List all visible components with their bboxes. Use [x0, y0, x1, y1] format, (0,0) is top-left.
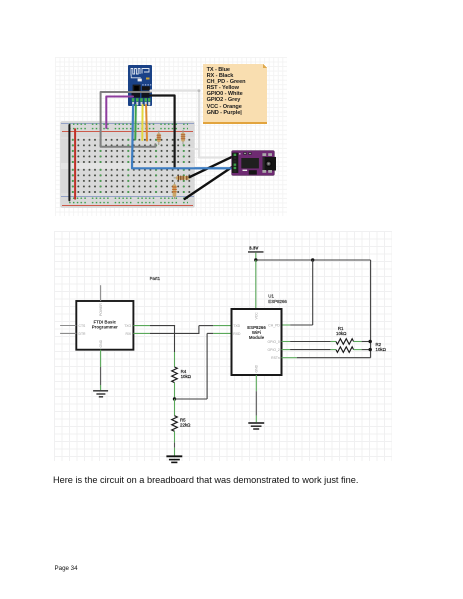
svg-text:CH_PD: CH_PD [268, 324, 280, 328]
wires overlay [55, 57, 287, 216]
resistor on breadboard (bottom horizontal) [174, 176, 191, 180]
wire R2 to bus [354, 349, 371, 351]
wire R1 to bus [354, 341, 371, 343]
chip 2 [142, 84, 151, 85]
legend note (sticky) [203, 64, 267, 125]
svg-text:RSTn: RSTn [271, 356, 280, 360]
resistor R4 [172, 367, 192, 383]
wire junction down to R5 [174, 399, 176, 416]
wire U1 GND down to ground [255, 375, 257, 422]
wire RXI to U1 TXD (crossover) [133, 326, 231, 334]
svg-text:3.3V: 3.3V [249, 246, 259, 251]
svg-text:10kΩ: 10kΩ [181, 374, 192, 379]
wire black GND of ESP [151, 96, 175, 169]
white silkscreen bits [242, 170, 247, 171]
svg-text:Programmer: Programmer [92, 325, 118, 330]
svg-text:DTR: DTR [79, 332, 87, 336]
wire white GPIO0 [151, 91, 236, 158]
resistor on breadboard (bottom vertical) [173, 183, 177, 199]
breadboard top bank dots [70, 137, 192, 165]
wire orange VCC [145, 105, 148, 141]
breadboard bottom rail red line [62, 204, 193, 207]
wire black serial B (to FTDI) [190, 155, 236, 177]
wire pin POWER stub (top) [100, 285, 102, 301]
ground (R5) [166, 456, 182, 462]
left pin header [232, 153, 238, 173]
svg-text:U1: U1 [268, 294, 274, 299]
lower pads region [132, 93, 141, 98]
svg-text:ESP8266: ESP8266 [268, 299, 287, 304]
resistor on breadboard (top-left) [157, 131, 161, 145]
node junction at VCC [254, 258, 257, 261]
IC U1 ESP8266 [232, 294, 288, 375]
svg-text:GND: GND [99, 339, 103, 347]
svg-text:22kΩ: 22kΩ [180, 423, 191, 428]
svg-text:10kΩ: 10kΩ [336, 331, 347, 336]
wire RSTn to bus [282, 357, 371, 359]
ground (U1) [248, 423, 264, 429]
svg-text:Module: Module [249, 335, 265, 340]
wire pin CTS stub [60, 325, 76, 327]
wire GPIO_0 to R1 [282, 341, 337, 343]
bottom chip [249, 170, 257, 174]
wire GPIO_2 to R2 [282, 349, 337, 351]
breadboard photo (Fritzing) [55, 57, 287, 216]
breadboard bottom bank dots [70, 167, 192, 195]
wire GND of FTDI down to ground [100, 350, 102, 391]
resistor on breadboard (top-right) [181, 131, 185, 145]
breadboard top rail red line [62, 130, 193, 133]
wire blue TX [132, 105, 237, 168]
svg-text:POWER: POWER [99, 303, 103, 316]
svg-text:GPIO_0: GPIO_0 [268, 340, 280, 344]
svg-text:GPIO_2: GPIO_2 [268, 348, 280, 352]
wire red rail jumper (left) [74, 129, 76, 199]
breadboard body [61, 122, 194, 207]
top small parts [243, 152, 246, 155]
breadboard bottom rail dots [68, 196, 188, 205]
resistor R2 [336, 342, 387, 353]
wire pin DTR stub [60, 332, 76, 334]
svg-text:VCC: VCC [255, 312, 259, 320]
wire right pull-up bus vertical [370, 260, 372, 358]
FTDI programmer (purple PCB) [232, 151, 274, 175]
svg-text:TXD: TXD [233, 324, 240, 328]
wire junction to RXD riser [175, 398, 208, 400]
svg-text:TXO: TXO [124, 324, 131, 328]
node junction R1/bus [369, 340, 372, 343]
breadboard center channel [61, 163, 194, 169]
wire CH_PD horizontal into U1 [290, 324, 313, 326]
ground (FTDI) [93, 391, 108, 397]
node junction at CH_PD riser [311, 258, 314, 261]
wire yellow RST [141, 105, 143, 140]
node 3.3V power symbol [248, 246, 264, 260]
wire CH_PD riser vertical [312, 260, 314, 325]
wire R5 bottom to ground [174, 431, 176, 456]
wire black rail jumper (left) [68, 125, 70, 200]
svg-text:GND: GND [255, 364, 259, 372]
main chip [241, 158, 259, 168]
wire grey GPIO2 [101, 92, 156, 147]
breadboard top blue line [61, 123, 194, 124]
resistor R1 [336, 326, 354, 344]
chip 1 [133, 85, 141, 92]
smd resistor white [138, 79, 142, 82]
breadboard bottom blue line [61, 195, 194, 198]
wire purple GND [106, 97, 133, 129]
resistor R5 [172, 416, 191, 432]
antenna trace [131, 69, 149, 76]
svg-text:10kΩ: 10kΩ [376, 347, 387, 352]
svg-text:RXI: RXI [126, 332, 132, 336]
wire VCC vertical (3.3V to U1 VCC pin) [255, 260, 257, 309]
IC FTDI Basic Programmer [76, 301, 133, 350]
usb connector [262, 157, 275, 171]
wire R4 bottom to junction [174, 383, 176, 399]
silver pads [262, 153, 266, 156]
svg-text:CTS: CTS [79, 324, 87, 328]
wire 3.3V rail horizontal [256, 259, 371, 261]
wire blue into FTDI [195, 167, 237, 169]
node junction R2/bus [369, 348, 372, 351]
wire TXO: green stub then dark to R4 top corner [133, 326, 175, 367]
node junction R4/R5/RXD [173, 397, 176, 400]
breadboard top rail dots [68, 122, 188, 131]
ESP8266 module (blue PCB) [128, 65, 152, 106]
svg-text:Part1: Part1 [150, 276, 161, 281]
wire black serial A (to FTDI) [185, 165, 236, 199]
svg-text:RXD: RXD [233, 332, 241, 336]
wire green CH_PD [134, 105, 137, 140]
